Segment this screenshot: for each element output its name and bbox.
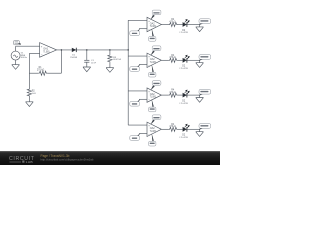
svg-text:C1: C1	[91, 60, 95, 62]
svg-text:Page / TravaNV1-3b: Page / TravaNV1-3b	[41, 154, 70, 158]
svg-text:TL081: TL081	[43, 51, 50, 53]
svg-text:LAB: LAB	[26, 160, 34, 164]
svg-text:R2: R2	[32, 91, 36, 93]
svg-text:V1: V1	[21, 53, 24, 55]
svg-text:1N4148: 1N4148	[70, 57, 77, 59]
svg-text:http://circuitlab.com/c/dkpapr: http://circuitlab.com/c/dkpapreucbm5hw3a…	[41, 158, 94, 162]
svg-text:1 kΩ: 1 kΩ	[32, 93, 37, 95]
svg-text:R3: R3	[113, 57, 117, 59]
svg-text:10 nF: 10 nF	[91, 62, 97, 64]
svg-text:D1: D1	[72, 55, 76, 57]
svg-text:OA1: OA1	[43, 48, 49, 51]
svg-text:68.47 kΩ: 68.47 kΩ	[113, 59, 121, 61]
svg-text:R1: R1	[39, 67, 43, 69]
svg-text:600 Hz: 600 Hz	[21, 57, 27, 59]
svg-text:SINE: SINE	[21, 55, 26, 57]
svg-text:270 kΩ: 270 kΩ	[37, 70, 45, 72]
